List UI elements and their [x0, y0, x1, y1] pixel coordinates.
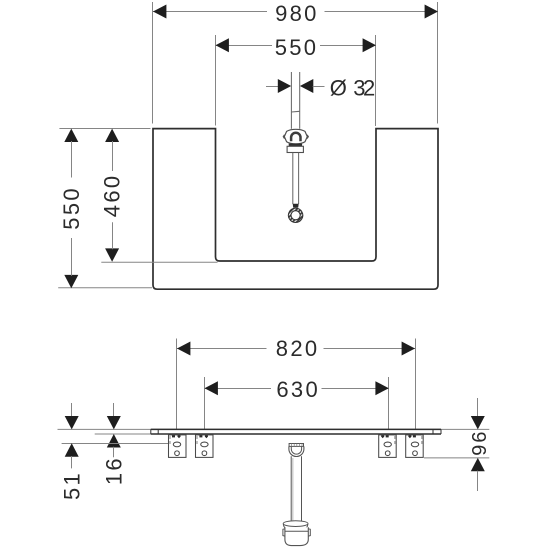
washbasin outline (front view) [153, 129, 438, 290]
siphon cup rim [283, 521, 308, 527]
drain outlet ring hatched [288, 208, 302, 222]
drain nut ears [283, 135, 308, 139]
dimension 980 extension line right [437, 2, 439, 124]
dimension 51 line [65, 403, 79, 468]
dimension 460 vertical line [105, 129, 119, 262]
svg-text:16: 16 [102, 456, 127, 485]
siphon cup band line [285, 530, 308, 532]
siphon cup side tabs [283, 529, 310, 536]
console plate bottom extension line left [95, 433, 151, 435]
console plate (edge view) [151, 429, 441, 434]
siphon cup body [285, 527, 308, 545]
mounting bracket D [406, 435, 424, 458]
dimension 96 extension line bottom [424, 457, 489, 459]
svg-text:980: 980 [275, 1, 319, 26]
svg-text:550: 550 [59, 186, 84, 230]
dimension 820 extension line left [176, 339, 178, 430]
dimension 980 extension line left [152, 2, 154, 124]
dimension 630 line [205, 381, 389, 395]
drain locknut band [287, 146, 303, 152]
drain lower pipe [293, 153, 299, 204]
svg-text:51: 51 [59, 471, 84, 500]
svg-text:630: 630 [276, 377, 320, 402]
drain collar dark band [289, 144, 302, 147]
dimension 630 extension line right [388, 377, 390, 429]
siphon clamp outer ring [289, 446, 304, 456]
dimension 550 line [216, 38, 377, 52]
svg-text:96: 96 [467, 431, 489, 457]
siphon vertical pipe [291, 456, 301, 521]
dimension 16 line [107, 403, 121, 457]
mounting bracket B [196, 435, 214, 458]
dimension 820 line [177, 342, 415, 356]
dimension diameter 32 line [266, 79, 325, 93]
dimension 550 vertical (left) extension bottom [58, 287, 152, 289]
siphon clamp inner ring [291, 446, 301, 454]
console plate end tick marks [151, 429, 441, 434]
dimension 980 line [153, 5, 438, 19]
siphon wall clamp ticks [292, 444, 302, 447]
console plate top extension line full [58, 428, 490, 430]
svg-text:550: 550 [275, 35, 319, 60]
svg-text:820: 820 [276, 336, 320, 361]
dimension 820 extension line right [415, 339, 417, 430]
dimension 460 extension bottom [101, 261, 217, 263]
dimension 550 extension line left [215, 35, 217, 126]
dimension 550 vertical (left) extension top [59, 128, 150, 130]
drain pipe upper (front view) [291, 72, 299, 129]
dimension 630 extension line left [204, 377, 206, 429]
siphon cup rim lower roll [283, 524, 308, 528]
drain pipe end cap [293, 204, 299, 208]
drain nut arch [291, 133, 300, 142]
dimension 51 extension line [62, 443, 174, 445]
mounting bracket C [379, 435, 397, 458]
siphon wall clamp bar [289, 444, 303, 447]
mounting bracket A [169, 435, 187, 458]
svg-text:Ø32: Ø32 [330, 75, 378, 100]
dimension 550 vertical line [64, 129, 78, 289]
svg-text:460: 460 [100, 174, 125, 218]
dimension 550 extension line right [375, 35, 377, 126]
drain nut fitting [284, 129, 307, 144]
dimension 96 line [471, 398, 485, 491]
